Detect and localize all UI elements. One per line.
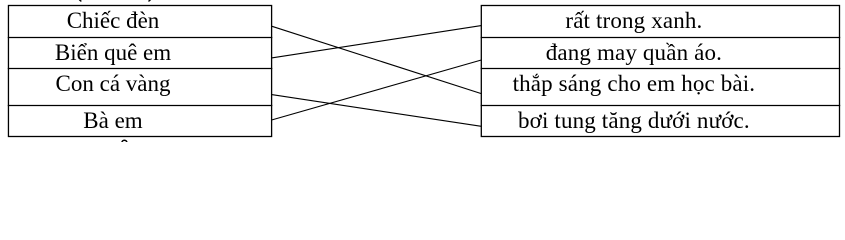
right table row line 1-2 <box>481 37 841 39</box>
cropped glyph remnant bottom <box>122 140 127 145</box>
right table row line 3-4 <box>481 105 841 107</box>
right table row line 2-3 <box>481 68 841 70</box>
left table outer border <box>8 6 271 137</box>
svg-text:Biển quê em: Biển quê em <box>55 40 171 65</box>
svg-text:thắp sáng cho em học bài.: thắp sáng cho em học bài. <box>513 71 756 96</box>
left table row line 2-3 <box>8 68 273 70</box>
svg-text:rất trong xanh.: rất trong xanh. <box>565 8 702 33</box>
cropped parenthesis ) remnant top <box>148 0 152 2</box>
right table outer border <box>481 6 839 137</box>
svg-text:bơi tung tăng dưới nước.: bơi tung tăng dưới nước. <box>518 108 750 133</box>
connector line: Chiec den -> thap sang cho em hoc bai <box>272 26 482 93</box>
svg-text:Bà em: Bà em <box>83 108 143 133</box>
connector line: Bien que em -> rat trong xanh <box>272 26 482 58</box>
connector line: Con ca vang -> boi tung tang duoi nuoc <box>272 95 482 127</box>
cropped parenthesis ( remnant top <box>78 0 82 2</box>
left table row line 3-4 <box>8 105 273 107</box>
svg-text:Chiếc đèn: Chiếc đèn <box>67 8 160 33</box>
left table row line 1-2 <box>8 37 273 39</box>
svg-text:Con cá vàng: Con cá vàng <box>56 71 171 96</box>
connector line: Ba em -> dang may quan ao <box>272 60 482 120</box>
svg-text:đang may quần áo.: đang may quần áo. <box>546 40 722 65</box>
